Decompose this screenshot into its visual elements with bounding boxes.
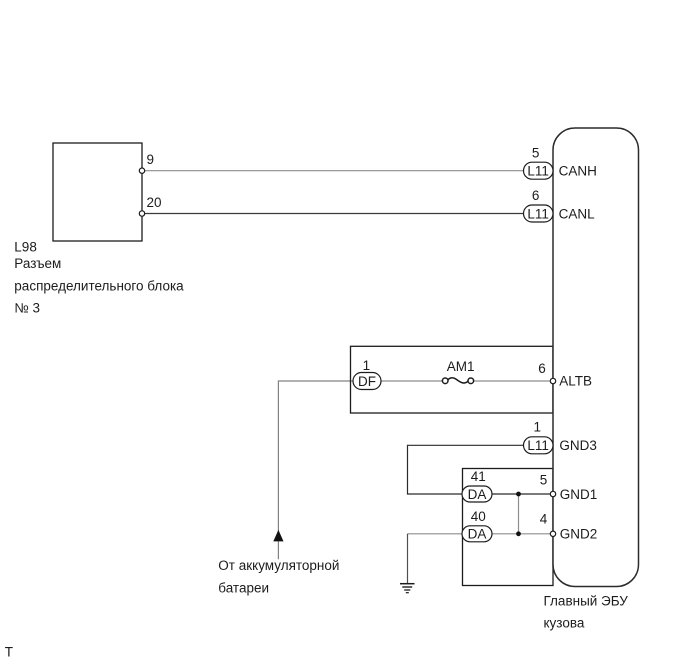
- svg-text:1: 1: [363, 358, 371, 373]
- svg-text:6: 6: [532, 188, 540, 203]
- svg-text:ALTB: ALTB: [559, 374, 592, 389]
- svg-text:GND1: GND1: [560, 487, 598, 502]
- svg-text:CANH: CANH: [559, 164, 597, 179]
- svg-text:40: 40: [471, 509, 486, 524]
- svg-text:Разъем: Разъем: [14, 256, 61, 271]
- svg-text:DA: DA: [468, 527, 487, 542]
- svg-text:9: 9: [147, 152, 155, 167]
- svg-text:L11: L11: [527, 206, 549, 221]
- svg-text:батареи: батареи: [218, 581, 269, 596]
- svg-text:распределительного блока: распределительного блока: [14, 279, 184, 294]
- svg-text:L11: L11: [527, 164, 549, 179]
- svg-text:L98: L98: [14, 239, 37, 254]
- svg-text:Т: Т: [5, 644, 13, 659]
- svg-text:AM1: AM1: [447, 359, 475, 374]
- svg-text:Главный ЭБУ: Главный ЭБУ: [544, 594, 629, 609]
- svg-text:6: 6: [538, 361, 546, 376]
- svg-text:DA: DA: [468, 487, 487, 502]
- svg-text:5: 5: [540, 473, 548, 488]
- svg-text:кузова: кузова: [544, 616, 585, 631]
- svg-text:L11: L11: [527, 438, 549, 453]
- svg-text:4: 4: [540, 512, 548, 527]
- svg-text:DF: DF: [358, 374, 376, 389]
- svg-text:1: 1: [534, 420, 542, 435]
- svg-text:GND2: GND2: [560, 527, 598, 542]
- svg-text:GND3: GND3: [559, 438, 597, 453]
- svg-text:41: 41: [471, 469, 486, 484]
- svg-text:От аккумуляторной: От аккумуляторной: [218, 558, 339, 573]
- svg-text:5: 5: [532, 145, 540, 160]
- svg-text:CANL: CANL: [559, 206, 596, 221]
- svg-text:20: 20: [147, 195, 162, 210]
- svg-text:№ 3: № 3: [14, 301, 40, 316]
